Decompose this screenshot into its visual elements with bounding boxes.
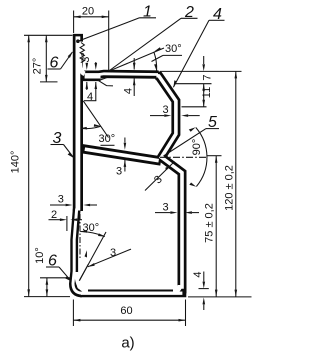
- dim 3deg lower arrow: [86, 82, 89, 89]
- angle dim 30deg upper barb reference line: [83, 101, 108, 138]
- dim 27 dimension line: [45, 35, 47, 82]
- label 6 bottom shelf: [46, 266, 59, 268]
- dim 75 top arrow: [215, 156, 218, 163]
- bottom-left extension line: [24, 296, 70, 298]
- svg-text:3: 3: [58, 194, 64, 206]
- lower barb dash-dot axis: [79, 214, 81, 260]
- profile left wall upper segment + hook (outline black): [73, 34, 83, 211]
- svg-text:140°: 140°: [9, 151, 21, 174]
- dim 4 mid upper arrow: [133, 63, 136, 70]
- dim 4 left lower arrow: [95, 82, 98, 89]
- label 3 shelf: [51, 144, 64, 146]
- angle dim 90deg lower arrow: [189, 183, 196, 187]
- dim 3deg lower shaft: [86, 82, 88, 90]
- shelf hollow (white pass): [85, 149, 159, 161]
- svg-text:60: 60: [120, 305, 132, 317]
- profile left wall lower tapered segment + bottom flare (outline black): [73, 209, 82, 293]
- dim 4 left upper shaft: [95, 62, 97, 63]
- profile bottom base wall (outline black): [80, 289, 186, 297]
- angle dim 30deg arc: [154, 52, 157, 71]
- dim 10 bottom arrow: [46, 289, 49, 296]
- angle dim 30deg upper barb arc: [81, 126, 101, 128]
- svg-text:3: 3: [116, 166, 122, 178]
- retaining lip under top wall: [98, 80, 113, 86]
- dim 3 vertical wall right arrow: [181, 114, 188, 117]
- svg-text:75 ± 0,2: 75 ± 0,2: [203, 203, 215, 243]
- dim 3 left wall left arrow: [66, 204, 73, 207]
- dim 75 bottom arrow: [215, 290, 218, 297]
- dim 140 top arrow: [27, 35, 30, 42]
- svg-text:3°: 3°: [80, 52, 92, 63]
- dim 2 left arrow: [60, 218, 67, 221]
- dim 140 dimension line: [28, 35, 30, 296]
- svg-text:120 ± 0,2: 120 ± 0,2: [223, 165, 235, 211]
- top surface extension line: [160, 70, 242, 72]
- svg-text:3: 3: [162, 104, 168, 116]
- base hollow (white pass): [81, 292, 182, 295]
- dim 3 lower barb arrow at tooth: [88, 263, 95, 267]
- angle dim 30deg reference line: [109, 48, 164, 71]
- svg-text:27°: 27°: [31, 58, 43, 75]
- dim 2 extension tick: [66, 216, 68, 231]
- svg-text:20: 20: [82, 6, 94, 18]
- label 4 leader: [173, 20, 209, 87]
- profile right wall + 90deg V-notch + stepped top bend (outline black): [156, 76, 182, 294]
- label 4 shelf: [209, 19, 225, 21]
- dim 20 right extension line: [108, 11, 110, 72]
- dim 2 left shaft: [49, 219, 61, 221]
- dim 3 lower barb dimension line: [88, 249, 131, 267]
- svg-text:3: 3: [162, 202, 168, 214]
- bottom-right inner fillet (white pass): [173, 285, 180, 291]
- dim 4 mid upper shaft: [133, 58, 135, 70]
- dim 3deg shaft: [86, 64, 88, 65]
- angle dim 30deg upper barb text underline: [101, 144, 115, 146]
- label 1 shelf: [140, 17, 157, 19]
- angle dim 30deg upper arrow: [154, 47, 161, 51]
- left wall lower hollow (white pass): [73, 209, 82, 294]
- top extension line: [24, 34, 73, 36]
- dim 27 bottom extension tick: [40, 81, 58, 83]
- dim 3 shelf lower shaft: [124, 160, 126, 172]
- label 6 top shelf: [48, 68, 61, 70]
- right wall hollow (white pass): [157, 76, 183, 289]
- label 2 shelf: [181, 17, 198, 19]
- dim 4 base extension tick: [199, 288, 209, 290]
- dim 60 dimension line: [73, 319, 185, 321]
- label 1 leader: [78, 18, 140, 41]
- dim 75 top extension tick: [207, 155, 222, 157]
- profile top wall left part at hook (outline black): [80, 71, 101, 82]
- angle dim 30deg lower barb left arrow: [80, 230, 87, 233]
- dim 27 top arrow: [45, 35, 48, 42]
- label 6 top leader arrow: [68, 51, 73, 58]
- svg-text:4: 4: [192, 271, 204, 277]
- dim 4 base upper shaft: [203, 272, 205, 282]
- dim 3 lower-V wall dimension line: [145, 162, 175, 191]
- dim 4 left upper arrow: [95, 63, 98, 70]
- angle dim 30deg text leader: [152, 55, 164, 61]
- dim 4 base lower arrow: [203, 297, 206, 304]
- dim 3 right wall right shaft: [192, 212, 199, 214]
- svg-text:а): а): [121, 335, 134, 352]
- dim 3 vertical wall left arrow: [164, 114, 171, 117]
- dim 75 dimension line: [215, 156, 217, 297]
- dim 3 lower barb arrow at axis: [85, 250, 88, 257]
- svg-text:4: 4: [123, 88, 135, 94]
- dim 4 left lower shaft: [95, 82, 97, 101]
- dim 3 left wall left shaft: [50, 204, 66, 206]
- step extension line y84: [174, 83, 212, 85]
- dim 7 lower arrow: [202, 84, 205, 91]
- angle dim 30deg lower barb right arrow: [98, 233, 105, 236]
- label 4 leader arrow: [173, 80, 176, 87]
- lip-to-wall transition edge: [100, 78, 108, 81]
- dim 10 upper extension tick: [40, 277, 72, 279]
- svg-text:30°: 30°: [165, 43, 182, 55]
- dim 4 mid lower shaft: [133, 78, 135, 96]
- dim 3 shelf upper shaft: [124, 138, 126, 143]
- label 6 bottom leader arrow: [65, 276, 71, 281]
- dim 3 shelf lower arrow: [124, 160, 127, 167]
- dim 20 left arrow: [74, 15, 81, 18]
- V-notch bisector centerline dash-dot: [160, 156, 208, 158]
- dim 10 dimension line: [46, 278, 48, 297]
- bottom-left inner fillet (white pass): [76, 272, 88, 291]
- dim 3 lower-V wall outer arrow: [165, 165, 171, 170]
- dim 120 bottom arrow: [235, 290, 238, 297]
- serration background clear: [79, 42, 84, 62]
- label 6 bottom leader: [59, 267, 71, 281]
- angle dim 30deg upper barb left arrow: [80, 127, 87, 130]
- dim 4 base upper arrow: [203, 282, 206, 289]
- dim 20 dimension line: [74, 16, 109, 18]
- svg-text:7: 7: [202, 74, 214, 80]
- dim 140 bottom arrow: [27, 289, 30, 296]
- lower barb tooth thick segment: [79, 264, 88, 281]
- svg-text:11: 11: [201, 87, 213, 98]
- profile middle shelf wall (outline black): [80, 148, 161, 161]
- serration zigzag on hook inner face: [80, 43, 84, 63]
- dim 27 bottom arrow: [45, 75, 48, 82]
- dim 60 right arrow: [179, 319, 186, 322]
- dim 7/11 shared shaft: [203, 84, 205, 107]
- angle dim 30deg lower barb arc: [80, 232, 105, 237]
- label 1 leader dot: [76, 39, 80, 43]
- label 5 leader: [164, 129, 207, 156]
- top wall right hollow (white pass): [99, 72, 158, 75]
- top wall left hollow (white pass): [85, 73, 101, 78]
- dim 3 right wall left arrow: [170, 211, 177, 214]
- dim 60 left extension line: [72, 300, 74, 327]
- dim 60 left arrow: [73, 319, 80, 322]
- dim 3 vertical wall left shaft: [150, 115, 164, 117]
- dim 7 upper shaft: [203, 56, 205, 64]
- dim 11 lower arrow: [202, 100, 205, 107]
- dim 2 right shaft: [77, 219, 82, 221]
- dim 3 left wall right shaft: [90, 204, 97, 206]
- angle dim 30deg upper barb right arrow: [94, 124, 101, 127]
- left wall hollow (white pass): [76, 36, 81, 210]
- dim 20 left extension line: [73, 11, 75, 34]
- label 3 leader arrow: [68, 153, 74, 158]
- hook inner cove (white pass): [80, 59, 85, 74]
- dim 10 top arrow: [46, 278, 49, 285]
- angle dim 90deg upper arrow: [189, 127, 196, 131]
- dim 3 right wall left shaft: [155, 212, 170, 214]
- dim 120 dimension line: [235, 71, 237, 296]
- dim 120 top arrow: [235, 71, 238, 78]
- dim 4 left text shelf: [84, 100, 96, 102]
- dim 60 right extension line: [185, 300, 187, 327]
- dim 4 mid lower arrow: [133, 78, 136, 85]
- angle dim 30deg lower arrow: [154, 64, 157, 71]
- dim 3 vertical wall right shaft: [188, 115, 200, 117]
- dim 2 right arrow: [70, 218, 77, 221]
- dim 3 right wall right arrow: [185, 211, 192, 214]
- angle dim 90deg arc: [196, 128, 207, 187]
- angle dim 30deg text underline: [163, 54, 182, 56]
- svg-text:90°: 90°: [191, 139, 203, 156]
- dim 4 base lower shaft: [203, 304, 205, 310]
- dim 20 right arrow: [102, 15, 109, 18]
- svg-text:10°: 10°: [34, 247, 46, 264]
- label 3 leader: [64, 145, 74, 158]
- profile top wall right part (outline black): [99, 70, 159, 79]
- lower barb reference line: [80, 232, 107, 281]
- label 6 top leader: [61, 52, 73, 69]
- step extension line y107: [182, 106, 207, 108]
- dim 3 left wall right arrow: [83, 204, 90, 207]
- label 2 leader: [109, 18, 181, 71]
- dim 3 shelf upper arrow: [124, 143, 127, 150]
- bottom-right extension line: [188, 296, 252, 298]
- dim 7 upper arrow: [202, 64, 205, 71]
- dim 3deg upper arrow: [86, 63, 89, 70]
- label 5 shelf: [206, 128, 219, 130]
- dim 3 lower-V wall inner arrow: [165, 165, 170, 171]
